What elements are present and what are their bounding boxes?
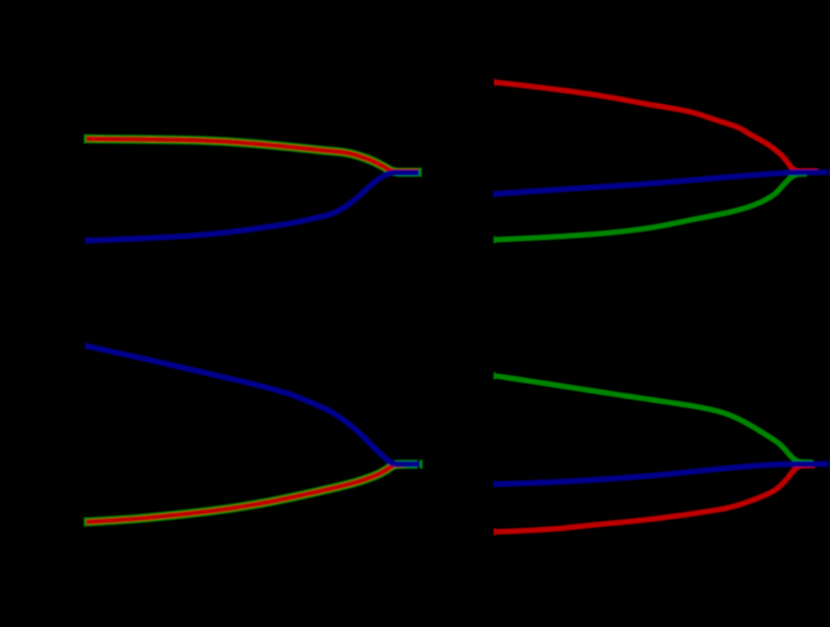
node: top-right blue end marker [828,168,830,176]
node: bottom-right blue start marker [494,481,496,488]
node: bottom-right green start marker [494,372,496,379]
node: top-left green start marker [84,134,86,143]
node: bottom-right red start marker [494,528,496,535]
wire: top-left green branch x+(t) with post-merge tail [85,139,419,173]
wire: bottom-right blue middle branch with tail [495,464,827,484]
wire: bottom-left red branch overlapping green [85,465,404,522]
wire: bottom-right green upper branch [495,376,813,462]
wire: bottom-right red lower branch [495,466,815,532]
node: bottom-left green start marker [84,517,86,526]
node: top-right red start marker [494,79,496,86]
wire: top-right blue middle branch with tail [495,172,828,194]
wire: top-right red upper branch [496,82,819,171]
node: bottom-left green end marker [420,460,423,469]
node: bottom-left blue start marker [85,342,87,349]
node: top-right blue start marker [493,191,495,198]
node: bottom-right blue end marker [828,461,830,469]
wire: top-left blue lower branch [86,173,421,241]
wire: bottom-left green branch with post-merge tail [85,464,418,522]
node: top-right green start marker [494,236,496,243]
node: top-left blue start marker [85,237,87,244]
wire: top-right green lower branch [495,174,807,240]
wire: top-left red branch overlapping green [85,139,420,172]
node: top-left green end marker [419,168,422,177]
wire: bottom-left blue upper branch [86,346,421,464]
